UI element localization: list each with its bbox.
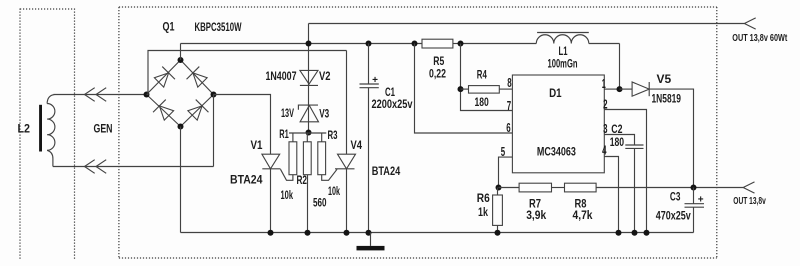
resistor R2 [303, 142, 311, 175]
chevron arrows on bottom GEN wire [85, 160, 107, 174]
svg-text:OUT 13,8v 60Wt: OUT 13,8v 60Wt [732, 33, 787, 44]
wire R7-R8 [552, 187, 565, 189]
svg-text:MC34063: MC34063 [537, 145, 576, 159]
svg-text:1N4007: 1N4007 [266, 69, 297, 83]
wire GEN bottom [53, 166, 214, 168]
node ground pin4 [616, 230, 622, 236]
wire V1 gate from R1 [281, 169, 293, 180]
node bridge left AC [144, 92, 150, 98]
svg-text:7: 7 [507, 99, 511, 113]
triac V1 [262, 154, 281, 169]
svg-text:R1: R1 [279, 127, 289, 141]
op-amp IC D1 MC34063 box [512, 75, 604, 173]
svg-text:OUT 13,8v: OUT 13,8v [733, 196, 766, 207]
resistor R6 [493, 188, 503, 233]
wire pin3 to C2 [604, 135, 634, 146]
svg-text:Q1: Q1 [163, 19, 175, 33]
svg-text:4,7k: 4,7k [573, 208, 593, 222]
node bridge right AC [211, 92, 217, 98]
svg-text:V2: V2 [319, 69, 331, 83]
svg-text:L2: L2 [18, 122, 31, 136]
svg-text:V5: V5 [657, 72, 672, 86]
wire GEN top [54, 94, 147, 96]
node ground C1 [366, 230, 372, 236]
OUT top terminal arrow [744, 18, 755, 29]
node ground R6 [495, 230, 501, 236]
wire pin2 to ground [604, 110, 646, 233]
svg-text:BTA24: BTA24 [230, 173, 263, 187]
wire pin5 to feedback node [499, 157, 513, 187]
svg-text:1k: 1k [478, 205, 488, 219]
svg-text:13V: 13V [281, 106, 294, 120]
main dashed border box [119, 7, 717, 258]
svg-text:V3: V3 [319, 107, 329, 121]
wire right AC node down to GEN bottom [213, 95, 215, 167]
wire right AC node to triac V1 [214, 95, 271, 155]
wire R4 to pin8 [499, 88, 512, 90]
wire V2/V3 chain vertical [308, 24, 310, 133]
svg-text:V4: V4 [351, 138, 363, 152]
node feedback [496, 185, 502, 191]
inductor L1 [536, 33, 589, 44]
bridge rectifier Q1 frame wires [147, 60, 214, 127]
resistor R1 [289, 142, 297, 175]
svg-text:C3: C3 [670, 190, 681, 204]
node ground V4 [344, 230, 350, 236]
node bridge top [178, 57, 184, 63]
svg-text:4: 4 [602, 144, 606, 158]
svg-text:0,22: 0,22 [429, 67, 446, 81]
inductor L2 core bar [39, 105, 42, 152]
wire pin6 [415, 44, 513, 134]
diode V5 [632, 82, 649, 96]
svg-text:+: + [372, 75, 378, 86]
wire L1 right to pin1 node [619, 44, 621, 90]
node top rail / V2 chain [306, 41, 312, 47]
node ground C2 [632, 230, 638, 236]
OUT lower terminal arrow [743, 182, 754, 193]
svg-text:1N5819: 1N5819 [652, 92, 682, 106]
svg-text:C2: C2 [611, 122, 622, 136]
wire L2 bottom lead [47, 150, 53, 166]
wire output rail lower [596, 187, 743, 189]
resistor R4 [469, 86, 500, 94]
wire R2 to ground rail [307, 175, 309, 233]
svg-text:100mGn: 100mGn [548, 57, 578, 71]
svg-text:KBPC3510W: KBPC3510W [195, 20, 242, 34]
wire V4 cathode to ground rail [346, 169, 348, 233]
wire main positive rail y=43 [181, 43, 620, 45]
bridge diode upper-left [153, 67, 175, 89]
wire V5 anode [620, 88, 633, 90]
node bridge bottom [178, 124, 184, 130]
wire ground rail [181, 232, 694, 234]
svg-text:560: 560 [313, 195, 327, 209]
node R5 right [458, 41, 464, 47]
node C3 top [691, 185, 697, 191]
bridge diode lower-left [153, 100, 175, 122]
wire bridge bottom node to ground rail [180, 127, 182, 233]
svg-text:V1: V1 [251, 138, 263, 152]
bridge diode lower-right [186, 100, 208, 122]
svg-text:+: + [698, 195, 704, 206]
node R4 left [458, 86, 464, 92]
wire left AC node riser [147, 51, 347, 95]
wire bridge top node riser to main rail [180, 44, 182, 61]
svg-text:R2: R2 [297, 173, 308, 187]
svg-text:470x25v: 470x25v [656, 209, 691, 223]
chevron arrows on top GEN wire [85, 88, 107, 102]
capacitor C2 [625, 145, 643, 233]
resistor R3 [318, 142, 326, 175]
wire V4 gate from R3 [322, 169, 337, 180]
wire V5 cathode to output rail [649, 89, 693, 187]
svg-text:180: 180 [475, 95, 490, 109]
resistor R8 [565, 183, 597, 192]
svg-text:3,9k: 3,9k [526, 208, 546, 222]
svg-text:GEN: GEN [94, 122, 113, 136]
node pin1 / L1 / V5 [617, 86, 623, 92]
diode V2 [300, 70, 318, 85]
svg-text:8: 8 [507, 76, 511, 90]
node pin6 dropper top [412, 41, 418, 47]
node V3 / resistor bus [306, 130, 312, 136]
svg-text:D1: D1 [549, 86, 562, 100]
svg-text:R3: R3 [328, 128, 338, 142]
wire top output rail [309, 23, 745, 25]
node C1 top [366, 41, 372, 47]
dashed enclosure box L2 (generator) [20, 9, 75, 260]
ground symbol [357, 233, 385, 251]
zener V3 [298, 105, 318, 122]
capacitor C1 [360, 44, 379, 233]
wire R4 left stub [461, 88, 469, 90]
svg-text:10k: 10k [281, 188, 294, 202]
svg-text:R6: R6 [477, 191, 490, 205]
bridge diode upper-right [187, 67, 209, 89]
svg-text:10k: 10k [328, 184, 340, 198]
wire resistor bus [289, 133, 326, 142]
svg-text:6: 6 [506, 121, 510, 135]
wire AC rail dropper to triac V4 [346, 51, 348, 155]
resistor R7 [519, 183, 551, 192]
node ground R2 [305, 230, 311, 236]
wire R5 right dropper to R4/pin7 [461, 44, 513, 111]
svg-text:BTA24: BTA24 [372, 164, 401, 178]
wire pin1 stub [604, 88, 619, 90]
triac V4 [335, 154, 356, 169]
wire V1 cathode to ground rail [270, 169, 272, 233]
capacitor C3 [685, 188, 705, 233]
inductor L2 winding [47, 104, 55, 151]
resistor R5 [422, 39, 453, 48]
svg-text:R4: R4 [477, 68, 487, 82]
wire L2 top lead [47, 95, 54, 104]
wire feedback rail to R7 [499, 187, 520, 189]
wire pin4 to ground [604, 157, 618, 233]
svg-text:2200x25v: 2200x25v [372, 97, 413, 111]
svg-text:180: 180 [610, 135, 625, 149]
node ground V1 [268, 230, 274, 236]
node ground pin2 [644, 230, 650, 236]
